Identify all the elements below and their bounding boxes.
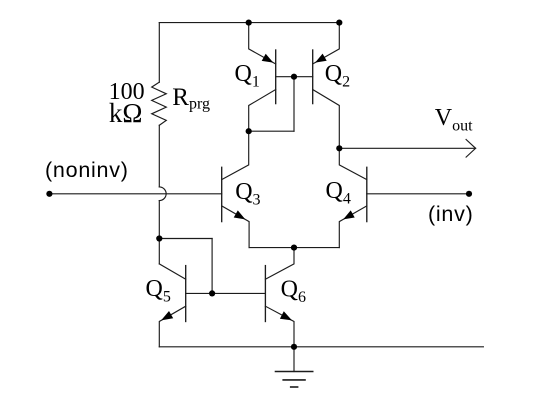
- wire bottom ground rail: [159, 346, 483, 348]
- junction dot Vout tap on Q2 collector: [336, 145, 342, 151]
- wire Q2 collector diagonal and vertical to Vout node: [313, 90, 340, 149]
- svg-text:Q5: Q5: [146, 276, 171, 306]
- transistor Q6 emitter arrow: [280, 311, 292, 320]
- wire top supply rail: [159, 22, 339, 24]
- svg-text:Q3: Q3: [235, 179, 260, 209]
- transistor Q3 emitter arrow: [234, 210, 246, 219]
- wire Q2 emitter from top rail corner: [313, 23, 340, 64]
- transistor Q5 emitter arrow: [161, 311, 173, 320]
- wire noninv input line to Q3 base: [49, 193, 221, 195]
- wire diode tie horizontal at Q1 collector: [249, 130, 294, 132]
- transistor Q2 emitter arrow: [315, 54, 327, 63]
- junction dot Q1 collector diode tie: [246, 128, 252, 134]
- svg-text:Q6: Q6: [281, 276, 306, 306]
- wire node A to Q5/Q6 base tie (horizontal): [159, 238, 212, 240]
- wire Q1 collector node down to Q3 collector: [222, 131, 249, 179]
- wire crossover hop over noninv line: [159, 187, 166, 201]
- transistor Q1 emitter arrow: [262, 54, 274, 63]
- svg-text:(noninv): (noninv): [45, 158, 129, 182]
- junction dot Q5-Q6 base rail: [209, 290, 215, 296]
- ground symbol bars: [276, 371, 313, 373]
- svg-text:Q2: Q2: [325, 61, 350, 91]
- wire Q4 emitter to tail: [339, 206, 367, 248]
- wire Q3 emitter to tail: [222, 206, 249, 248]
- wire Q5 collector diagonal: [159, 264, 185, 279]
- resistor Rprg (zigzag body): [152, 82, 167, 125]
- wire Vout node down to Q4 collector: [339, 148, 367, 179]
- ground symbol stem: [293, 347, 295, 372]
- wire Q1 emitter from top rail: [249, 23, 276, 64]
- wire hop down to node A: [158, 201, 160, 239]
- wire common emitter tail rail: [249, 247, 339, 249]
- svg-text:Rprg: Rprg: [172, 84, 210, 113]
- svg-text:Q4: Q4: [326, 178, 351, 208]
- wire Q1-Q2 base link: [276, 76, 313, 78]
- wire Q6 emitter to ground rail: [265, 306, 294, 347]
- wire tail node down to Q6 collector: [265, 248, 294, 280]
- transistor Q3 bar: [221, 167, 223, 221]
- svg-text:Q1: Q1: [235, 61, 260, 91]
- node (inv) terminal dot: [466, 191, 472, 197]
- svg-text:Vout: Vout: [435, 105, 473, 135]
- junction dot Q1-Q2 base tie: [291, 74, 297, 80]
- wire Q5 emitter to ground rail: [159, 306, 185, 347]
- junction dot tail current node: [291, 245, 297, 251]
- wire Vout arrowhead: [466, 140, 476, 158]
- transistor Q4 emitter arrow: [343, 210, 355, 219]
- wire Vout output line: [339, 147, 475, 149]
- svg-text:(inv): (inv): [428, 202, 474, 226]
- wire resistor bottom to crossover hop: [158, 125, 160, 187]
- wire Q1 collector diagonal and vertical: [249, 90, 276, 132]
- transistor Q6 bar: [264, 266, 266, 322]
- svg-text:kΩ: kΩ: [109, 98, 143, 128]
- wire Q5 diode tie vertical down to base rail: [211, 239, 213, 294]
- wire Q5-Q6 base rail: [186, 292, 266, 294]
- node (noninv) terminal dot: [46, 191, 52, 197]
- junction dot top rail corner / Q2 emitter: [336, 20, 342, 26]
- junction dot top rail / Q1 emitter: [246, 20, 252, 26]
- transistor Q2 bar: [312, 50, 314, 104]
- transistor Q4 bar: [366, 167, 368, 221]
- wire left vertical from rail to resistor top: [158, 23, 160, 83]
- wire base junction down to diode tie: [293, 77, 295, 132]
- junction dot ground rail: [291, 344, 297, 350]
- wire node A down to Q5 collector bend: [158, 239, 160, 264]
- transistor Q5 bar: [185, 266, 187, 322]
- transistor Q1 bar: [275, 50, 277, 104]
- wire inv input line to Q4 base: [367, 193, 469, 195]
- junction dot node A resistor / Q5 collector: [156, 235, 162, 241]
